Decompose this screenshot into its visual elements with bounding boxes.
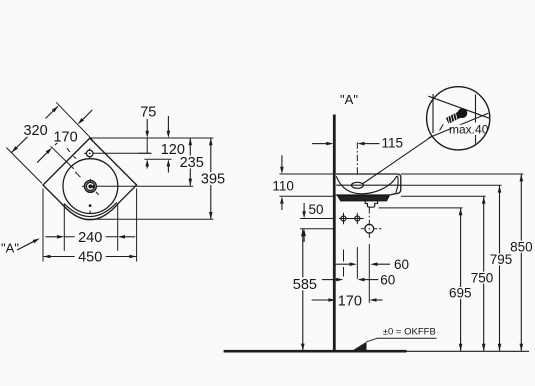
- tap hole tick marks: [84, 152, 86, 154]
- extension drain level left of wall: [300, 228, 334, 230]
- drain centerline extension right: [97, 185, 193, 187]
- extension line trap bottom level: [379, 207, 463, 209]
- dim 395 label: [197, 172, 229, 185]
- tap hole (plan): [86, 150, 93, 157]
- extension line basin rim level right: [401, 173, 523, 175]
- dim 110 label: [271, 180, 295, 191]
- dim 170 plan - dimension line segment: [55, 140, 60, 145]
- dim 120 label: [157, 143, 189, 155]
- tap hole centerline extension right: [93, 152, 152, 154]
- svg-text:795: 795: [490, 252, 513, 267]
- dim 450 extension lines: [42, 189, 44, 262]
- dim 170 plan - upper arrow: [82, 110, 93, 121]
- mounting bracket strip: [338, 196, 390, 201]
- plan tap hole level extension line: [138, 152, 151, 154]
- extension fixing-hole level left of wall: [300, 218, 333, 220]
- basin inner right rim line: [396, 176, 399, 193]
- dim 240 line with outward arrows: [45, 236, 57, 238]
- dim 60 lower row (hole to hole): [322, 279, 337, 281]
- max.40 label: [452, 125, 486, 134]
- svg-text:695: 695: [449, 286, 472, 301]
- dim 235 label: [176, 156, 208, 169]
- section arrow A: [17, 241, 35, 250]
- fixing holes horizontal centerline: [339, 218, 364, 220]
- dim 240 label: [75, 230, 106, 243]
- drain extension vertical solid: [368, 244, 370, 303]
- tap deck line through tap hole: [336, 184, 401, 186]
- tap hole ellipse (elevation): [351, 182, 363, 188]
- svg-text:450: 450: [78, 250, 102, 266]
- balloon upper diagonal line: [428, 96, 489, 118]
- svg-text:240: 240: [78, 230, 102, 246]
- dim 170 elevation label: [338, 295, 361, 306]
- 45deg centerline through drain - outer solid segment with dashes: [51, 146, 74, 169]
- basin front inner edge arc: [64, 203, 117, 217]
- extension line through left vertex for 320: [6, 148, 42, 184]
- svg-text:±0 = OKFFB: ±0 = OKFFB: [383, 327, 436, 338]
- dim 115 right arrow at tap centerline: [357, 142, 364, 146]
- svg-text:60: 60: [394, 257, 409, 272]
- svg-text:"A": "A": [340, 92, 358, 107]
- dim 795 vertical line: [499, 185, 501, 351]
- detail balloon circle: [427, 87, 490, 150]
- dim 585 vertical line: [302, 229, 304, 351]
- dim 850 vertical line: [520, 174, 522, 351]
- plan bowl top level extension line: [144, 158, 171, 160]
- svg-text:585: 585: [293, 277, 317, 293]
- plan front edge extension line: [86, 218, 214, 220]
- basin plan outline (rotated square corner basin): [43, 138, 137, 220]
- overflow hole dot: [89, 204, 92, 207]
- svg-text:235: 235: [180, 155, 204, 171]
- svg-text:75: 75: [140, 104, 156, 120]
- dim 320 - dimension line with outward arrows: [12, 137, 28, 153]
- svg-text:110: 110: [272, 179, 294, 194]
- svg-text:115: 115: [382, 136, 404, 151]
- extension line basin bottom level left of wall: [279, 195, 334, 197]
- drain centerline ticks: [82, 185, 84, 187]
- extension line basin bottom right: [401, 195, 486, 197]
- dim 235 vertical dimension line: [189, 138, 191, 186]
- dim 395 vertical dimension line: [210, 138, 212, 219]
- tap centerline vertical dash-dot: [356, 142, 358, 176]
- wall section line: [333, 115, 336, 352]
- datum text underline: [377, 337, 437, 339]
- basin bowl circle: [63, 159, 118, 214]
- dim 450 label: [75, 250, 106, 263]
- dim 115 left arrow at wall: [312, 143, 327, 145]
- arrow on 45deg centerline (dim 170 lower arrow): [37, 151, 49, 163]
- datum symbol connector: [367, 338, 378, 342]
- dim 170 plan label: [51, 130, 81, 143]
- svg-text:60: 60: [380, 273, 395, 288]
- dim 750 vertical line: [483, 196, 485, 351]
- dim 50 label: [307, 204, 325, 215]
- fixing hole centerline verticals: [343, 213, 345, 224]
- svg-text:320: 320: [23, 123, 47, 139]
- dim 695 vertical line: [460, 208, 462, 351]
- dim 50 arrows: [303, 203, 305, 212]
- 45deg dashed line near tap hole: [67, 148, 70, 152]
- drain 45deg centerline tick lower-right: [96, 192, 99, 195]
- fixing hole right: [355, 216, 360, 221]
- screw (max.40 fixing screw): [445, 107, 469, 126]
- dim 240 extension lines: [63, 204, 65, 251]
- dim 110 arrows: [281, 155, 283, 167]
- balloon lower diagonal (leader continuation): [429, 113, 489, 138]
- drain outlet circle (elevation): [365, 224, 374, 233]
- dim 75 arrows col x=147.2: [146, 119, 148, 132]
- fixing hole left: [341, 216, 346, 221]
- svg-text:850: 850: [510, 239, 533, 254]
- svg-text:750: 750: [471, 270, 494, 285]
- left fixing hole extension vertical pieces: [343, 250, 345, 262]
- drain symbol (plan): [85, 181, 97, 193]
- extension line tap deck level right: [401, 184, 502, 186]
- leader line from tap to detail balloon: [362, 136, 432, 184]
- plan top extension line: [90, 137, 214, 139]
- floor line thin: [407, 350, 530, 352]
- drain fitting below basin: [365, 201, 377, 207]
- dim 585 label: [289, 277, 320, 290]
- basin bowl section curve: [336, 176, 397, 194]
- screw tip tick: [440, 124, 444, 130]
- drain circle centerline ticks: [361, 228, 364, 230]
- svg-text:170: 170: [53, 129, 77, 145]
- datum level triangle: [352, 342, 367, 351]
- balloon second vertical line: [475, 95, 477, 123]
- svg-text:395: 395: [201, 172, 225, 188]
- floor line thick: [224, 350, 407, 353]
- right fixing hole extension vertical: [356, 247, 358, 279]
- svg-text:"A": "A": [1, 241, 19, 256]
- bowl bottom center tick: [89, 211, 91, 214]
- dim 320 label: [21, 123, 51, 136]
- dim 120 arrows col x=168.4: [167, 116, 169, 132]
- balloon wall vertical line: [432, 94, 434, 133]
- svg-text:max.40: max.40: [449, 122, 489, 136]
- basin side profile outline: [336, 174, 401, 195]
- extension line basin rim level left of wall: [279, 173, 333, 175]
- drain centerline vertical dashed: [368, 208, 370, 241]
- dim 170 elevation row (wall to drain): [312, 299, 329, 301]
- svg-text:50: 50: [308, 202, 323, 217]
- dim 60 upper row (holes to drain): [335, 263, 350, 265]
- extension line through top vertex (shared 320/170): [56, 102, 92, 139]
- dim 450 line with arrows: [43, 256, 137, 258]
- svg-text:170: 170: [338, 293, 362, 309]
